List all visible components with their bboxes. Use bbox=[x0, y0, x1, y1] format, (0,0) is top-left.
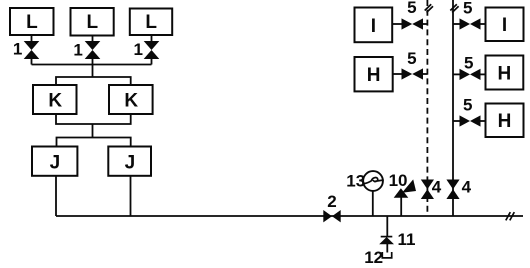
label 1c bbox=[134, 40, 143, 59]
wire manifold 4 bbox=[57, 138, 131, 147]
valve 4b bbox=[446, 180, 459, 200]
wire manifold1 drop bbox=[92, 65, 94, 78]
svg-text:5: 5 bbox=[407, 0, 416, 17]
label L2 bbox=[86, 12, 98, 33]
svg-text:L: L bbox=[26, 12, 38, 33]
label K1 bbox=[48, 90, 62, 111]
valve 1b bbox=[85, 41, 101, 59]
svg-text:5: 5 bbox=[464, 53, 473, 72]
valve 1a bbox=[24, 41, 40, 59]
label 5a bbox=[407, 0, 416, 17]
svg-text:J: J bbox=[50, 152, 61, 173]
wire valve 1c to manifold bbox=[151, 58, 153, 65]
svg-text:11: 11 bbox=[398, 230, 416, 249]
valve 5c bbox=[460, 18, 481, 29]
svg-text:1: 1 bbox=[134, 40, 143, 59]
wire H-left to valve 5b bbox=[393, 73, 402, 75]
label J2 bbox=[125, 152, 136, 173]
label 2 bbox=[327, 192, 336, 211]
svg-text:K: K bbox=[48, 90, 62, 111]
check valve 11 bbox=[379, 237, 394, 245]
unit I left bbox=[355, 8, 393, 43]
wire I-left to valve 5a bbox=[392, 23, 402, 25]
valve 5b bbox=[402, 68, 424, 79]
label 5b bbox=[407, 49, 416, 68]
svg-text:10: 10 bbox=[389, 171, 408, 190]
svg-text:13: 13 bbox=[346, 172, 365, 191]
wire valve 11 to funnel bbox=[386, 244, 388, 253]
tank L1 bbox=[10, 8, 54, 35]
label 13 bbox=[346, 172, 365, 191]
svg-text:H: H bbox=[498, 111, 512, 132]
wire J2 outlet to main header bbox=[130, 176, 132, 216]
valve 1c bbox=[144, 41, 160, 59]
svg-text:J: J bbox=[125, 152, 136, 173]
wire drain stem bbox=[386, 216, 388, 237]
break symbol solid line bbox=[450, 4, 458, 12]
unit H right 2 bbox=[486, 104, 524, 138]
wire solid line to valve 5e bbox=[453, 120, 460, 122]
svg-text:2: 2 bbox=[327, 192, 336, 211]
svg-text:4: 4 bbox=[462, 178, 472, 197]
label K2 bbox=[124, 90, 138, 111]
wire valve 5e to H-right2 bbox=[480, 120, 486, 122]
svg-text:K: K bbox=[124, 90, 138, 111]
svg-text:H: H bbox=[498, 63, 512, 84]
wire solid line to valve 5d bbox=[453, 73, 460, 75]
wire valve 5a to dashed line bbox=[423, 23, 428, 25]
unit J1 bbox=[32, 147, 77, 176]
wire dashed branch line bbox=[426, 0, 428, 216]
unit H right 1 bbox=[486, 56, 524, 90]
label 11 bbox=[398, 230, 416, 249]
label 5e bbox=[463, 96, 472, 115]
wire L1 to valve 1a bbox=[31, 35, 33, 42]
wire valve 1a to manifold bbox=[31, 58, 33, 65]
svg-text:1: 1 bbox=[73, 40, 82, 59]
wire L3 to valve 1c bbox=[151, 35, 153, 42]
svg-text:5: 5 bbox=[463, 0, 472, 17]
valve 2 bbox=[323, 210, 340, 222]
valve 5d bbox=[460, 69, 481, 80]
label L3 bbox=[145, 12, 157, 33]
label H left bbox=[367, 65, 381, 86]
svg-text:L: L bbox=[145, 12, 157, 33]
wire manifold 2 bbox=[56, 77, 131, 85]
wire solid branch line bbox=[452, 0, 454, 216]
tank L2 bbox=[71, 8, 114, 36]
gauge 13 squiggle bbox=[363, 178, 383, 184]
svg-text:5: 5 bbox=[407, 49, 416, 68]
svg-text:12: 12 bbox=[364, 248, 383, 267]
label 4b bbox=[462, 178, 472, 197]
unit H left bbox=[355, 57, 393, 91]
wire valve 1b to manifold bbox=[92, 58, 94, 65]
label 5c bbox=[463, 0, 472, 17]
wire K outlets to manifold 3 bbox=[56, 114, 131, 124]
unit I right bbox=[486, 8, 524, 42]
wire gauge stem bbox=[372, 191, 374, 216]
svg-text:I: I bbox=[502, 15, 507, 36]
wire manifold3 drop bbox=[92, 124, 94, 138]
break symbol main header bbox=[506, 212, 515, 220]
gauge 13 circle bbox=[363, 171, 383, 191]
relief valve 10 bbox=[394, 179, 416, 197]
unit K1 bbox=[33, 85, 77, 114]
svg-text:5: 5 bbox=[463, 96, 472, 115]
label H right 2 bbox=[498, 111, 512, 132]
wire relief valve stem bbox=[400, 197, 402, 216]
tank L3 bbox=[130, 9, 172, 36]
wire valve 5d to H-right1 bbox=[480, 73, 486, 75]
svg-text:4: 4 bbox=[432, 178, 442, 197]
valve 5a bbox=[402, 18, 424, 29]
label 5d bbox=[464, 53, 473, 72]
svg-text:L: L bbox=[86, 12, 98, 33]
unit J2 bbox=[108, 147, 151, 176]
label I left bbox=[371, 16, 376, 37]
label H right 1 bbox=[498, 63, 512, 84]
svg-text:H: H bbox=[367, 65, 381, 86]
funnel 12 bbox=[382, 252, 391, 258]
label L1 bbox=[26, 12, 38, 33]
wire manifold 1 bbox=[32, 64, 152, 66]
label 1a bbox=[13, 40, 22, 59]
break symbol dashed line bbox=[425, 4, 433, 12]
wire J1 outlet to main header bbox=[55, 176, 57, 216]
wire main header bbox=[56, 215, 523, 217]
wire valve 5c to I-right bbox=[480, 23, 486, 25]
unit K2 bbox=[109, 85, 153, 114]
valve 4a bbox=[421, 180, 434, 200]
label 1b bbox=[73, 40, 82, 59]
label 12 bbox=[364, 248, 383, 267]
svg-text:I: I bbox=[371, 16, 376, 37]
wire valve 5b to dashed line bbox=[423, 73, 428, 75]
svg-text:1: 1 bbox=[13, 40, 22, 59]
label I right bbox=[502, 15, 507, 36]
label 10 bbox=[389, 171, 408, 190]
valve 5e bbox=[460, 115, 481, 126]
label J1 bbox=[50, 152, 61, 173]
label 4a bbox=[432, 178, 442, 197]
wire L2 to valve 1b bbox=[92, 36, 94, 43]
wire solid line to valve 5c bbox=[453, 23, 460, 25]
